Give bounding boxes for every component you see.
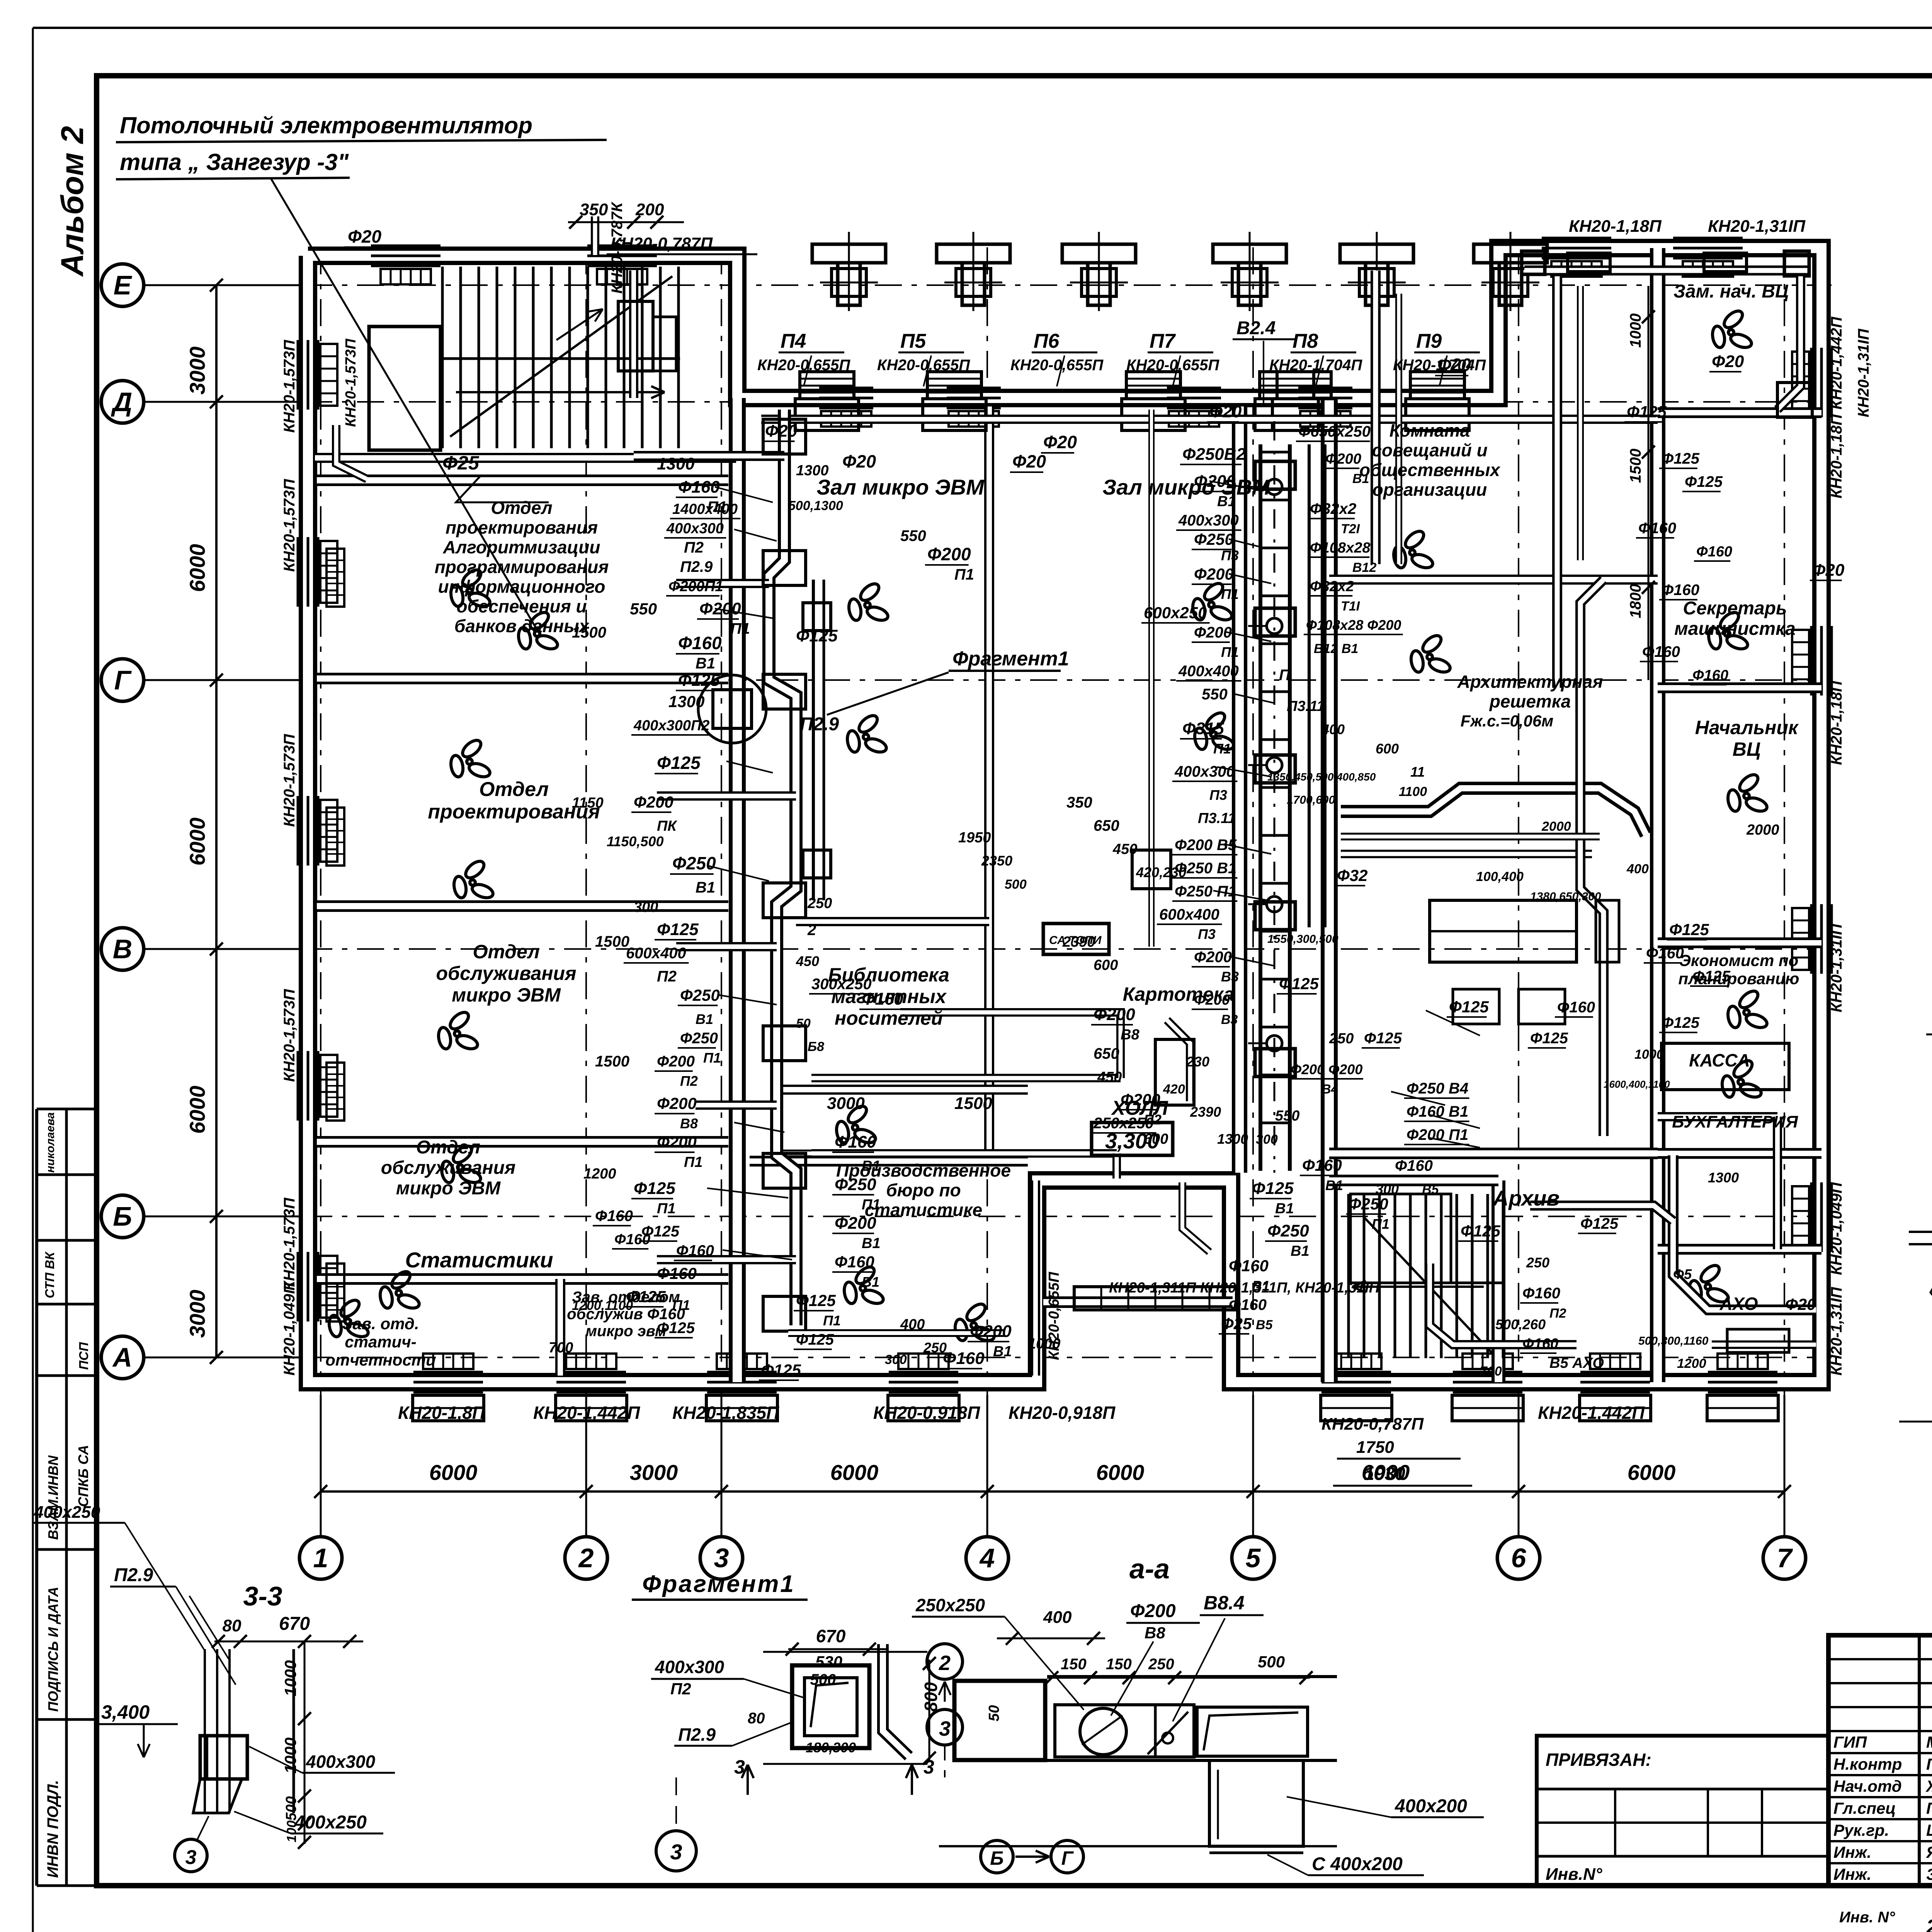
ceiling fan 22 xyxy=(1688,1262,1730,1304)
svg-text:П5: П5 xyxy=(900,330,926,352)
svg-text:Ф125: Ф125 xyxy=(1364,1030,1402,1047)
svg-text:300: 300 xyxy=(885,1352,907,1367)
svg-text:Начальник: Начальник xyxy=(1695,717,1799,738)
svg-text:Ф108х28 Ф200: Ф108х28 Ф200 xyxy=(1306,617,1401,633)
axis Б circle xyxy=(101,1195,144,1238)
svg-text:Ф160: Ф160 xyxy=(835,1133,876,1151)
svg-text:1500: 1500 xyxy=(572,624,606,641)
svg-text:6000: 6000 xyxy=(185,1086,209,1134)
svg-text:Ф650х250: Ф650х250 xyxy=(1298,423,1371,440)
svg-text:2390: 2390 xyxy=(1190,1104,1221,1120)
svg-text:550: 550 xyxy=(1202,686,1228,703)
window xyxy=(587,245,657,247)
svg-text:П1: П1 xyxy=(862,1197,880,1213)
svg-text:450: 450 xyxy=(1112,841,1137,857)
svg-text:550: 550 xyxy=(900,527,926,544)
svg-text:П1: П1 xyxy=(730,620,750,637)
svg-text:Зам. нач. ВЦ: Зам. нач. ВЦ xyxy=(1673,281,1789,302)
svg-text:В1: В1 xyxy=(862,1274,879,1290)
svg-text:Ф125: Ф125 xyxy=(1627,403,1667,421)
svg-text:Ф20: Ф20 xyxy=(1043,432,1077,452)
svg-text:Ф125: Ф125 xyxy=(1662,450,1700,467)
svg-text:3-3: 3-3 xyxy=(243,1581,282,1611)
svg-text:ПРИВЯЗАН:: ПРИВЯЗАН: xyxy=(1546,1750,1651,1770)
svg-text:Шляхтер: Шляхтер xyxy=(1926,1821,1932,1839)
svg-text:Ф250: Ф250 xyxy=(1267,1221,1309,1240)
equip in комната совещаний xyxy=(1430,900,1577,962)
window xyxy=(1167,387,1221,389)
svg-text:П2.9: П2.9 xyxy=(800,714,839,735)
svg-text:Ф20: Ф20 xyxy=(1812,561,1845,580)
svg-text:ПОДПИСЬ И ДАТА: ПОДПИСЬ И ДАТА xyxy=(45,1587,61,1712)
П2.9 circle area xyxy=(698,675,766,743)
svg-text:500,300,1160: 500,300,1160 xyxy=(1638,1335,1709,1347)
svg-text:600: 600 xyxy=(1376,741,1399,757)
svg-text:В1: В1 xyxy=(1252,1278,1270,1294)
svg-text:400х250: 400х250 xyxy=(34,1503,100,1522)
svg-text:450: 450 xyxy=(1097,1069,1122,1085)
svg-text:КН20-1,573П: КН20-1,573П xyxy=(281,479,298,572)
svg-text:400: 400 xyxy=(1321,721,1345,737)
svg-text:Рук.гр.: Рук.гр. xyxy=(1833,1821,1889,1839)
svg-text:Ф20: Ф20 xyxy=(1209,402,1242,421)
svg-text:обслуживания: обслуживания xyxy=(381,1158,516,1178)
svg-text:совещаний и: совещаний и xyxy=(1372,440,1487,460)
svg-text:1200: 1200 xyxy=(1677,1356,1706,1371)
a-a drawing xyxy=(954,1681,1045,1760)
duct elbows near spine xyxy=(634,451,784,461)
svg-text:300: 300 xyxy=(634,899,658,915)
svg-text:П4: П4 xyxy=(781,330,806,352)
svg-text:Ф160: Ф160 xyxy=(595,1207,633,1225)
svg-text:КН20-1,573П: КН20-1,573П xyxy=(281,340,298,433)
svg-text:общественных: общественных xyxy=(1359,460,1501,480)
ceiling fan 12 xyxy=(954,1301,996,1343)
svg-text:микро ЭВМ: микро ЭВМ xyxy=(452,984,561,1006)
svg-text:Метрик: Метрик xyxy=(1926,1733,1932,1751)
privyazan box xyxy=(1537,1736,1828,1886)
svg-text:КН20-1,442П: КН20-1,442П xyxy=(1538,1403,1645,1423)
window xyxy=(1321,1371,1391,1374)
svg-text:Ф160: Ф160 xyxy=(1557,999,1595,1016)
svg-text:КН20-0,655П: КН20-0,655П xyxy=(757,357,850,374)
svg-text:ВЗАМ.ИНВN: ВЗАМ.ИНВN xyxy=(45,1455,61,1540)
svg-text:Ф200: Ф200 xyxy=(657,1053,695,1070)
svg-text:1100: 1100 xyxy=(1399,784,1427,799)
svg-text:250: 250 xyxy=(1148,1656,1174,1673)
svg-text:организации: организации xyxy=(1372,480,1487,500)
svg-text:Ф160: Ф160 xyxy=(678,478,720,497)
svg-text:Ф160: Ф160 xyxy=(1302,1156,1342,1174)
svg-text:В8: В8 xyxy=(1145,1624,1165,1642)
svg-text:ВЦ: ВЦ xyxy=(1733,738,1761,760)
axis В circle xyxy=(101,928,144,970)
svg-text:3,400: 3,400 xyxy=(101,1701,150,1723)
svg-text:П1: П1 xyxy=(657,1201,675,1217)
svg-text:Ф160: Ф160 xyxy=(1662,582,1699,599)
svg-text:В1: В1 xyxy=(862,1158,881,1174)
svg-text:670: 670 xyxy=(279,1614,310,1634)
svg-text:420,230: 420,230 xyxy=(1136,864,1186,880)
stair block bottom wall xyxy=(315,453,736,463)
ceiling fan 10 xyxy=(835,1103,877,1145)
partitions central xyxy=(984,406,994,1155)
svg-text:1300: 1300 xyxy=(1217,1131,1248,1147)
svg-text:П2: П2 xyxy=(684,539,704,556)
svg-text:1500: 1500 xyxy=(954,1094,992,1113)
svg-text:КН20-0,655П: КН20-0,655П xyxy=(877,357,970,374)
svg-text:Отдел: Отдел xyxy=(416,1137,480,1158)
axis lines horizontal xyxy=(144,284,305,286)
svg-text:КН20-1,573П: КН20-1,573П xyxy=(281,734,298,827)
svg-text:типа „ Зангезур -3": типа „ Зангезур -3" xyxy=(120,149,349,175)
svg-text:С 400х200: С 400х200 xyxy=(1312,1854,1403,1874)
svg-text:Ф200: Ф200 xyxy=(657,1133,697,1151)
svg-text:Потолочный электровентилятор: Потолочный электровентилятор xyxy=(120,112,532,138)
svg-text:3: 3 xyxy=(714,1543,729,1573)
ceiling fan 13 xyxy=(1191,580,1233,622)
svg-text:700: 700 xyxy=(549,1340,573,1356)
valve circles column on shaft xyxy=(1267,479,1282,495)
svg-text:6000: 6000 xyxy=(1096,1460,1145,1485)
svg-text:П2: П2 xyxy=(680,1073,698,1089)
svg-text:Ф125: Ф125 xyxy=(796,626,838,645)
svg-text:350: 350 xyxy=(580,200,608,219)
window xyxy=(707,1371,777,1374)
svg-text:Ф250: Ф250 xyxy=(835,1175,876,1194)
ceiling fan 11 xyxy=(843,1264,885,1306)
svg-text:400х300: 400х300 xyxy=(306,1752,375,1772)
svg-text:машинистка: машинистка xyxy=(1674,619,1796,639)
svg-text:П2.9: П2.9 xyxy=(114,1565,153,1585)
svg-text:отчетности: отчетности xyxy=(325,1351,436,1369)
window xyxy=(371,245,440,247)
svg-text:1930: 1930 xyxy=(1364,1464,1405,1484)
axis Е circle xyxy=(101,264,144,306)
sheet outer border xyxy=(33,27,1932,29)
svg-text:КН20-1,049П: КН20-1,049П xyxy=(1828,1182,1845,1275)
svg-text:Гольц: Гольц xyxy=(1926,1755,1932,1773)
svg-text:420: 420 xyxy=(1163,1082,1185,1097)
svg-text:Б8: Б8 xyxy=(808,1039,824,1054)
svg-text:Г: Г xyxy=(114,665,132,695)
svg-text:6: 6 xyxy=(1511,1543,1527,1573)
axis 6 circle xyxy=(1497,1537,1540,1579)
svg-text:Ф160: Ф160 xyxy=(1395,1157,1433,1174)
svg-text:1000: 1000 xyxy=(1028,1336,1061,1352)
svg-text:П1: П1 xyxy=(823,1313,841,1328)
svg-text:Ф160: Ф160 xyxy=(1642,643,1680,660)
svg-text:информационного: информационного xyxy=(438,577,605,597)
svg-text:П: П xyxy=(1279,667,1291,684)
svg-text:350: 350 xyxy=(1066,794,1092,811)
window xyxy=(297,537,299,607)
svg-text:1750: 1750 xyxy=(1356,1438,1394,1457)
svg-text:Инж.: Инж. xyxy=(1833,1865,1871,1883)
bottom right AXO duct xyxy=(1712,1340,1816,1349)
svg-text:В1: В1 xyxy=(1217,493,1236,510)
ceiling fan 15 xyxy=(1392,528,1434,570)
dimension col left xyxy=(215,285,218,1357)
svg-text:П1: П1 xyxy=(1372,1216,1389,1232)
svg-text:Желтоухов: Желтоухов xyxy=(1925,1777,1932,1795)
svg-text:Яковец: Яковец xyxy=(1926,1843,1932,1861)
svg-text:600: 600 xyxy=(1094,957,1118,973)
svg-text:500: 500 xyxy=(810,1671,836,1688)
svg-text:500: 500 xyxy=(1258,1653,1285,1671)
svg-text:Ф125: Ф125 xyxy=(1662,1014,1700,1031)
svg-text:Ф25: Ф25 xyxy=(1221,1315,1252,1333)
svg-text:400х300: 400х300 xyxy=(1174,763,1235,780)
svg-text:Ф5: Ф5 xyxy=(1673,1266,1692,1282)
svg-text:КН20-1,573П: КН20-1,573П xyxy=(281,1197,298,1291)
svg-text:100,400: 100,400 xyxy=(1476,869,1524,884)
window xyxy=(413,1371,483,1374)
svg-text:П3.11: П3.11 xyxy=(1287,698,1325,714)
svg-text:6000: 6000 xyxy=(1628,1460,1676,1485)
svg-text:Ф125: Ф125 xyxy=(678,671,720,690)
svg-text:В1: В1 xyxy=(696,1011,713,1027)
svg-text:Ф125: Ф125 xyxy=(1669,920,1709,939)
ceiling fan 2 xyxy=(449,737,492,779)
svg-text:В: В xyxy=(113,934,133,964)
fragment axis circles xyxy=(927,1644,963,1679)
svg-text:Ф125: Ф125 xyxy=(1252,1179,1294,1198)
svg-text:В3: В3 xyxy=(1221,1012,1238,1027)
svg-text:Ф125: Ф125 xyxy=(1449,998,1489,1016)
fragment drawing xyxy=(792,1665,869,1748)
svg-text:300: 300 xyxy=(1256,1132,1278,1147)
window xyxy=(556,1371,626,1374)
svg-text:а-а: а-а xyxy=(1129,1554,1170,1585)
svg-text:Ф20: Ф20 xyxy=(1712,352,1744,371)
extra central ducts round2 xyxy=(796,917,989,926)
svg-text:400: 400 xyxy=(900,1316,925,1333)
axis А circle xyxy=(101,1336,144,1379)
svg-text:Ф200: Ф200 xyxy=(657,1094,697,1112)
svg-text:400х250: 400х250 xyxy=(294,1812,367,1833)
svg-text:5: 5 xyxy=(1246,1543,1261,1573)
svg-text:1300: 1300 xyxy=(796,463,829,479)
axis Г circle xyxy=(101,659,144,701)
svg-text:В8: В8 xyxy=(1121,1027,1139,1043)
svg-text:Зал микро ЭВМ: Зал микро ЭВМ xyxy=(816,475,985,499)
svg-text:Ф125: Ф125 xyxy=(657,1320,695,1337)
svg-text:банков данных: банков данных xyxy=(454,616,590,636)
svg-text:3000: 3000 xyxy=(185,1290,209,1338)
svg-text:КН20-1,835П: КН20-1,835П xyxy=(672,1403,779,1423)
svg-text:П1: П1 xyxy=(684,1154,702,1170)
detail 3-3 duct xyxy=(204,1649,206,1813)
svg-text:Ф125: Ф125 xyxy=(761,1361,801,1379)
window xyxy=(819,387,873,389)
registers row (Библиотека duct) xyxy=(811,1074,1121,1082)
svg-text:Ф160: Ф160 xyxy=(1692,667,1728,684)
ceiling fan 20 xyxy=(1726,988,1769,1030)
svg-text:Ф160: Ф160 xyxy=(1229,1257,1269,1275)
svg-text:Ф108х28: Ф108х28 xyxy=(1310,540,1371,556)
svg-text:Ф20: Ф20 xyxy=(1012,451,1046,471)
svg-text:1350,450,500,400,850: 1350,450,500,400,850 xyxy=(1267,771,1376,783)
svg-text:Ф200: Ф200 xyxy=(835,1214,876,1233)
svg-text:Ф125: Ф125 xyxy=(796,1291,836,1310)
svg-text:Ф250 В4: Ф250 В4 xyxy=(1406,1080,1468,1097)
ceiling fan 8 xyxy=(847,581,889,623)
ceiling fan 7 xyxy=(328,1297,370,1339)
svg-text:Б: Б xyxy=(113,1201,132,1231)
svg-text:600х250: 600х250 xyxy=(1144,604,1207,622)
svg-text:600х400: 600х400 xyxy=(626,945,686,962)
svg-text:450: 450 xyxy=(796,953,819,969)
svg-text:1500: 1500 xyxy=(1627,449,1644,483)
svg-text:Отдел: Отдел xyxy=(479,778,549,801)
svg-text:6000: 6000 xyxy=(185,818,209,866)
svg-text:П1: П1 xyxy=(672,1297,690,1313)
svg-text:Б: Б xyxy=(990,1847,1003,1869)
svg-text:В2.4: В2.4 xyxy=(1236,318,1276,338)
svg-text:Ф160: Ф160 xyxy=(1696,544,1732,560)
svg-text:2000: 2000 xyxy=(1746,822,1779,838)
svg-text:250х250: 250х250 xyxy=(915,1595,985,1615)
svg-text:В1: В1 xyxy=(696,879,715,896)
svg-text:носителей: носителей xyxy=(835,1007,943,1029)
window xyxy=(1810,348,1813,417)
supply duct along top wall xyxy=(761,415,1658,424)
svg-text:500: 500 xyxy=(1005,877,1027,892)
svg-text:Е: Е xyxy=(114,270,133,300)
svg-text:Ф200: Ф200 xyxy=(634,793,673,811)
svg-text:700: 700 xyxy=(1480,1364,1502,1379)
axis 4 circle xyxy=(966,1537,1009,1579)
svg-text:КАССА: КАССА xyxy=(1689,1050,1750,1070)
svg-text:Ф25: Ф25 xyxy=(442,452,480,474)
building outer wall xyxy=(308,248,1821,1382)
svg-text:1300: 1300 xyxy=(668,692,704,711)
ceiling fan 9 xyxy=(846,713,888,755)
svg-text:Ф20: Ф20 xyxy=(1785,1295,1816,1313)
svg-text:П6: П6 xyxy=(1034,330,1060,352)
svg-text:П2: П2 xyxy=(657,968,677,985)
svg-text:Ф160: Ф160 xyxy=(943,1349,985,1368)
svg-text:КН20-0,787П: КН20-0,787П xyxy=(1321,1415,1424,1434)
svg-text:КН20-1,573П: КН20-1,573П xyxy=(281,989,298,1082)
svg-text:550: 550 xyxy=(630,600,657,618)
svg-text:АХО: АХО xyxy=(1719,1294,1758,1314)
svg-text:Ф125: Ф125 xyxy=(1279,975,1319,993)
svg-text:Ф200П1: Ф200П1 xyxy=(668,578,723,595)
svg-text:Инж.: Инж. xyxy=(1833,1843,1871,1861)
svg-text:КН20-1,31IП: КН20-1,31IП xyxy=(1828,1287,1845,1376)
svg-text:2000: 2000 xyxy=(1541,819,1571,834)
svg-text:Архив: Архив xyxy=(1492,1186,1560,1210)
svg-text:Ф32х2: Ф32х2 xyxy=(1310,578,1354,595)
svg-text:3: 3 xyxy=(939,1717,951,1740)
svg-text:300: 300 xyxy=(1376,1181,1399,1197)
roof deflectors xyxy=(848,232,850,311)
svg-text:Нач.отд: Нач.отд xyxy=(1833,1777,1902,1795)
svg-text:650: 650 xyxy=(1094,1045,1119,1062)
svg-text:2350: 2350 xyxy=(981,853,1012,869)
stairwell top-left xyxy=(369,327,440,450)
svg-text:Ф125: Ф125 xyxy=(1461,1222,1501,1240)
svg-text:КН20-1,31IП: КН20-1,31IП xyxy=(1855,328,1872,417)
svg-text:А: А xyxy=(112,1342,133,1372)
svg-text:КН20-1,049П: КН20-1,049П xyxy=(281,1282,298,1376)
svg-text:Ф125: Ф125 xyxy=(1580,1215,1619,1232)
svg-text:400: 400 xyxy=(1626,862,1649,876)
svg-text:СПКБ СА: СПКБ СА xyxy=(75,1445,91,1507)
interior partitions left wing xyxy=(729,398,746,1382)
svg-text:Д: Д xyxy=(111,387,133,417)
bottom right duct runs xyxy=(1673,1155,1816,1310)
svg-text:1300: 1300 xyxy=(1708,1170,1739,1185)
svg-text:1150: 1150 xyxy=(572,795,604,811)
svg-text:проектирования: проектирования xyxy=(446,517,598,537)
title block frame xyxy=(1828,1635,1932,1886)
svg-text:Ф160: Ф160 xyxy=(657,1264,697,1282)
svg-text:1700,600: 1700,600 xyxy=(1287,794,1335,806)
svg-text:Ф160: Ф160 xyxy=(678,633,722,653)
architectural grille duct (bold zigzag) xyxy=(1341,788,1646,835)
svg-text:670: 670 xyxy=(816,1626,846,1646)
svg-text:В3: В3 xyxy=(1221,969,1239,985)
svg-text:Ф20: Ф20 xyxy=(1437,355,1471,375)
svg-text:В1: В1 xyxy=(862,1235,881,1252)
svg-text:250: 250 xyxy=(1526,1255,1549,1270)
window xyxy=(1673,237,1743,240)
svg-text:Fж.с.=0,06м: Fж.с.=0,06м xyxy=(1461,712,1554,730)
svg-text:Ф200: Ф200 xyxy=(1194,949,1232,966)
svg-text:Секретарь: Секретарь xyxy=(1683,598,1787,619)
svg-text:николаева: николаева xyxy=(44,1112,57,1173)
axis 2 circle xyxy=(565,1537,607,1579)
svg-text:БУХГАЛТЕРИЯ: БУХГАЛТЕРИЯ xyxy=(1672,1112,1798,1131)
svg-text:800: 800 xyxy=(921,1682,941,1712)
svg-text:80: 80 xyxy=(748,1710,765,1727)
svg-text:П3: П3 xyxy=(1209,787,1227,803)
svg-text:Ф200: Ф200 xyxy=(927,544,971,564)
svg-text:статистике: статистике xyxy=(865,1200,983,1220)
svg-text:1000: 1000 xyxy=(281,1660,299,1696)
svg-text:600х400: 600х400 xyxy=(1159,906,1219,923)
window xyxy=(1810,904,1813,974)
svg-text:Инв.N°: Инв.N° xyxy=(1546,1865,1602,1884)
svg-text:В4: В4 xyxy=(1321,1082,1338,1097)
svg-text:Ф200: Ф200 xyxy=(1194,565,1234,583)
svg-text:1: 1 xyxy=(313,1543,328,1573)
ceiling fan 4 xyxy=(437,1009,479,1051)
svg-text:250: 250 xyxy=(807,895,832,912)
svg-text:Ф200 Ф200: Ф200 Ф200 xyxy=(1291,1061,1362,1077)
svg-text:П2.9: П2.9 xyxy=(678,1725,716,1745)
svg-text:Зав. отд.: Зав. отд. xyxy=(342,1315,419,1333)
svg-text:В8: В8 xyxy=(680,1116,698,1131)
svg-text:П8: П8 xyxy=(1293,330,1318,352)
svg-text:4: 4 xyxy=(979,1543,995,1573)
ceiling fan 18 xyxy=(1707,609,1749,651)
svg-text:Отдел: Отдел xyxy=(473,941,539,963)
svg-text:Ф160: Ф160 xyxy=(1646,945,1684,962)
svg-text:3: 3 xyxy=(923,1756,934,1778)
window xyxy=(1542,237,1611,240)
svg-text:Ф125: Ф125 xyxy=(657,920,699,939)
svg-text:статич-: статич- xyxy=(345,1333,417,1351)
svg-text:Ф125: Ф125 xyxy=(796,1331,834,1348)
svg-text:550: 550 xyxy=(1275,1108,1299,1124)
partitions right block xyxy=(1650,248,1665,1382)
svg-text:650: 650 xyxy=(1094,817,1119,834)
svg-text:В1: В1 xyxy=(1352,471,1369,486)
